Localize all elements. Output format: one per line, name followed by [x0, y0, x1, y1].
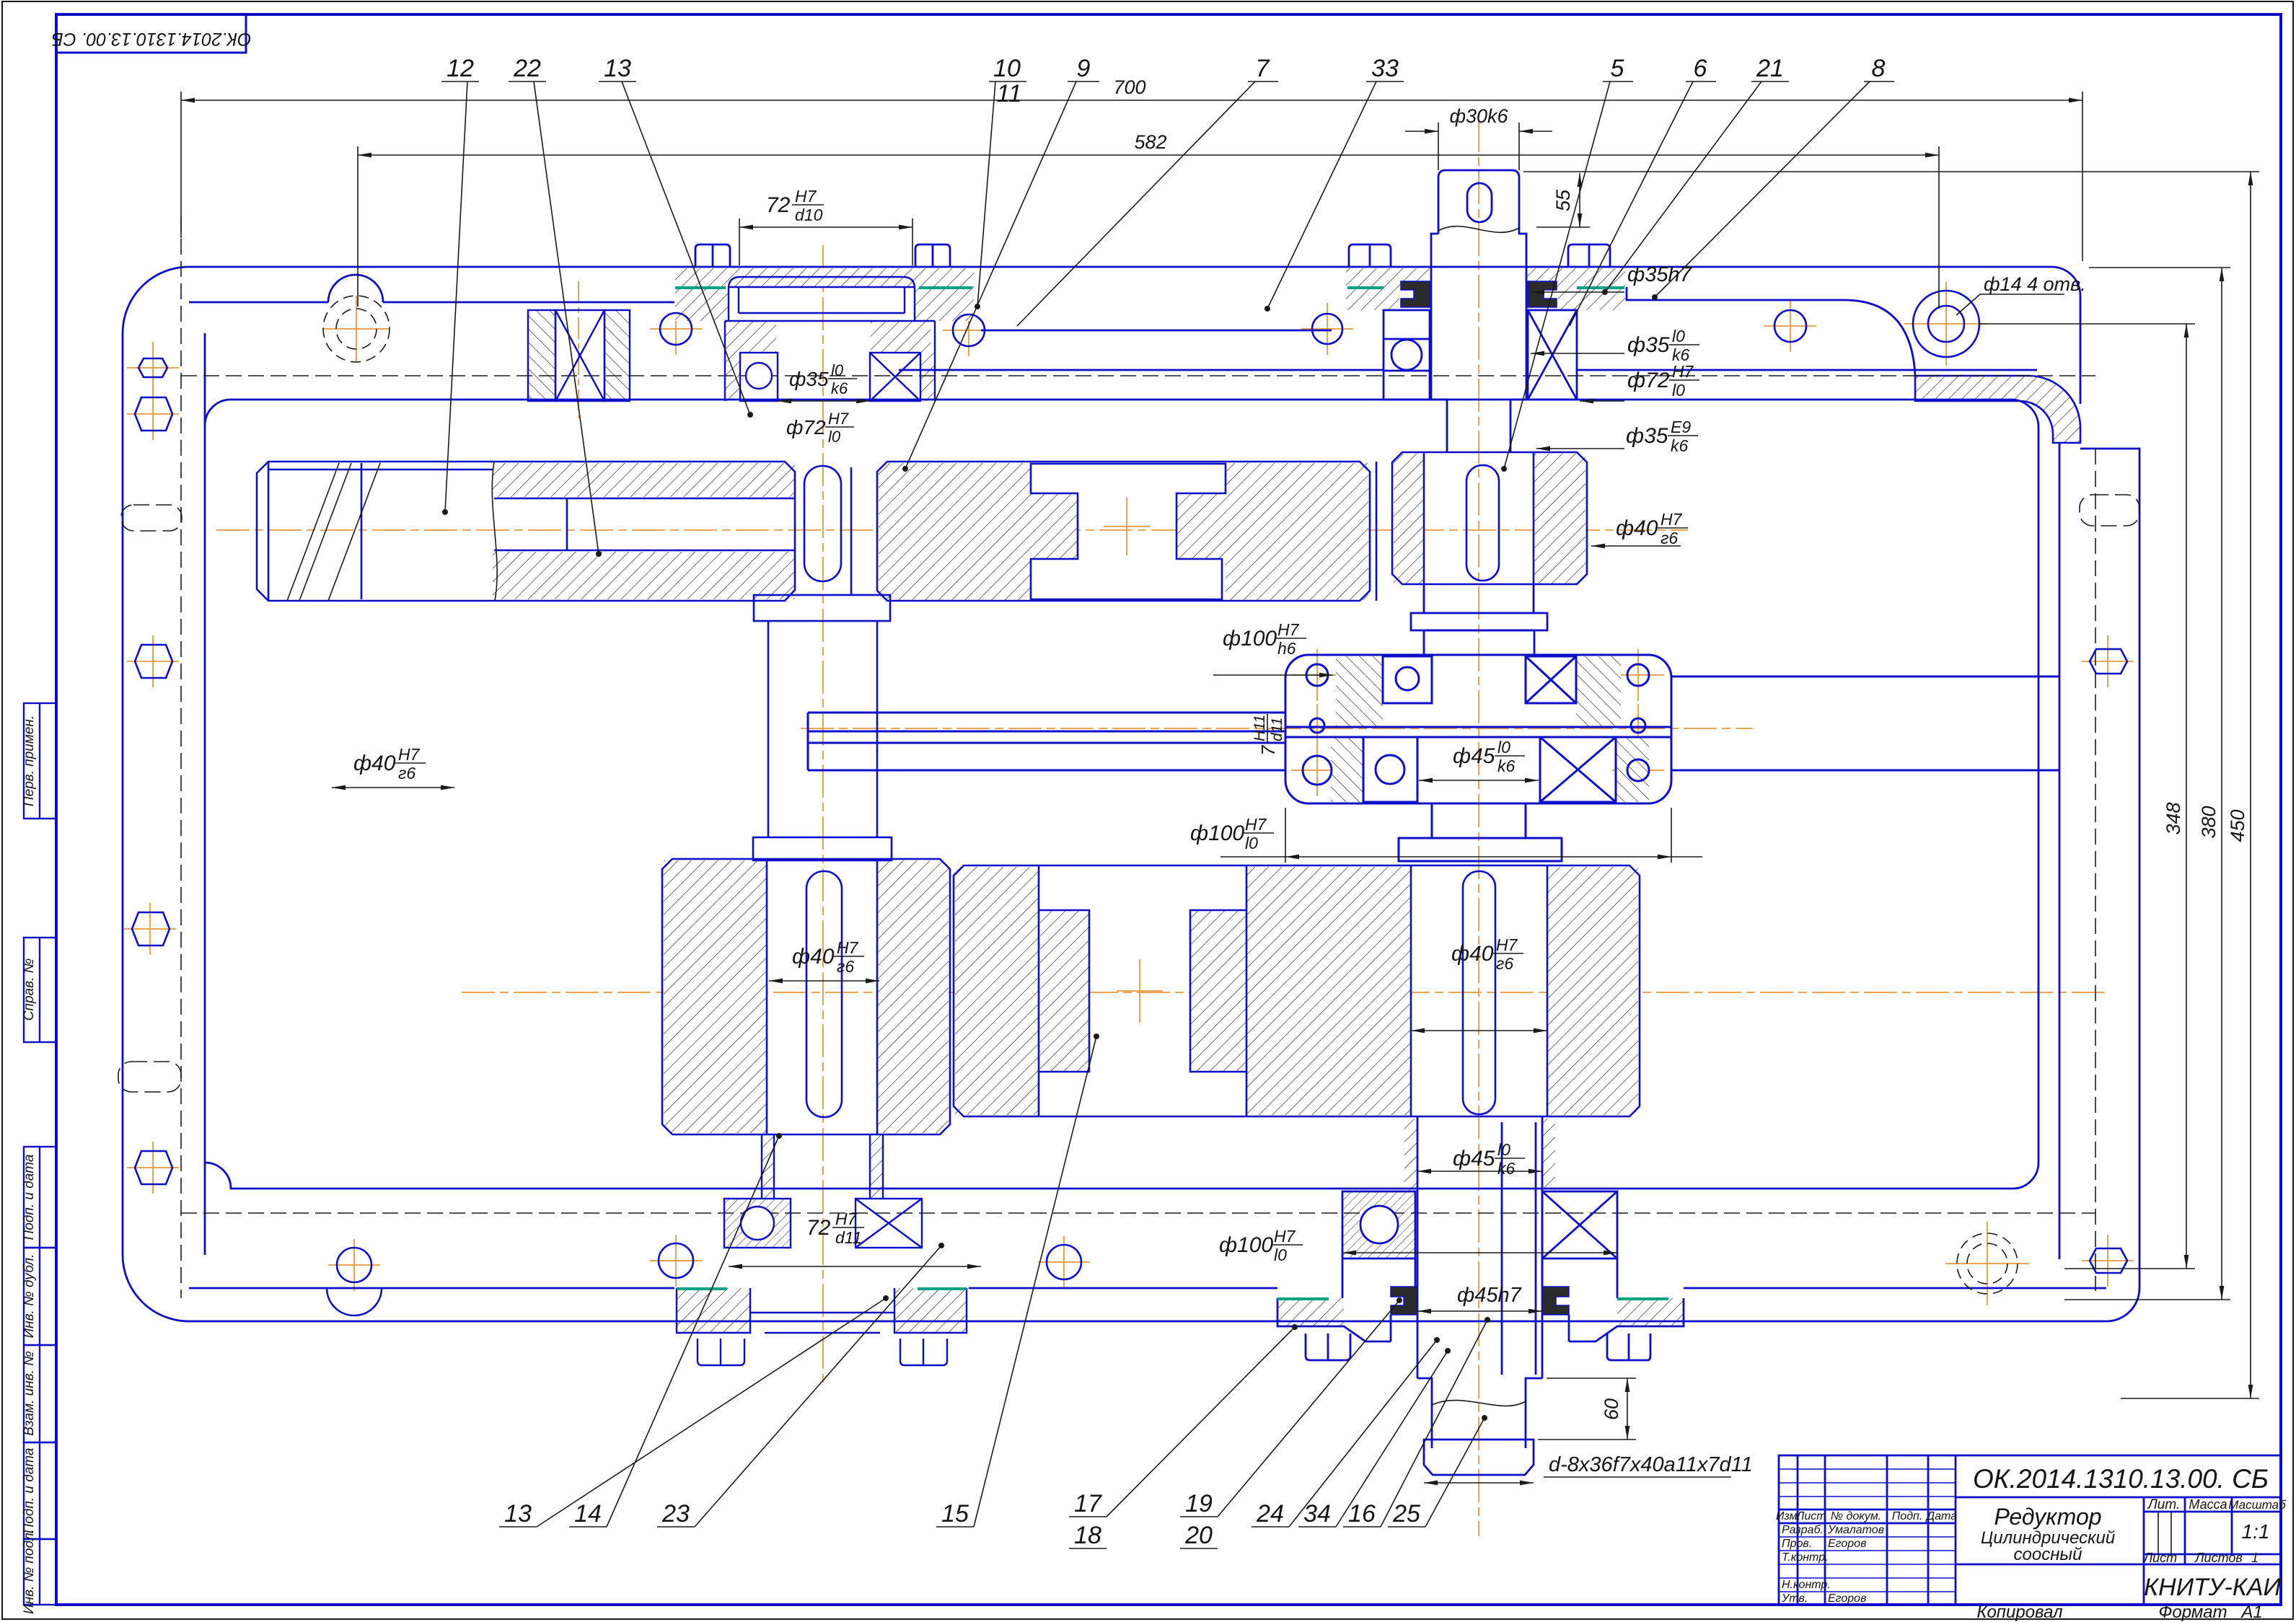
svg-text:E9: E9 [1671, 418, 1691, 436]
svg-text:ОК.2014.1310.13.00. СБ: ОК.2014.1310.13.00. СБ [1973, 1464, 2269, 1494]
svg-text:24: 24 [1256, 1500, 1284, 1528]
svg-text:Лист: Лист [1795, 1510, 1826, 1522]
svg-text:ф30k6: ф30k6 [1449, 105, 1508, 127]
svg-text:d11: d11 [835, 1228, 862, 1247]
input shaft (pos.16 upper end) with keyway slot [695, 170, 2037, 655]
svg-text:72: 72 [766, 193, 791, 217]
svg-text:d10: d10 [795, 206, 823, 224]
svg-text:22: 22 [513, 55, 541, 82]
intermediate shaft bottom bearing and cover hatching [762, 1134, 774, 1199]
svg-text:ф100: ф100 [1223, 627, 1277, 651]
svg-text:ф35: ф35 [1626, 424, 1668, 448]
svg-text:20: 20 [1184, 1522, 1213, 1549]
svg-text:H7: H7 [1245, 815, 1267, 834]
svg-text:H11: H11 [1252, 715, 1268, 741]
svg-text:11: 11 [996, 80, 1021, 107]
svg-text:ОК.2014.1310.13.00. СБ: ОК.2014.1310.13.00. СБ [51, 29, 251, 49]
svg-text:l0: l0 [1672, 327, 1685, 345]
svg-text:13: 13 [504, 1500, 532, 1528]
svg-text:Взам. инв. №: Взам. инв. № [22, 1351, 37, 1436]
svg-text:H7: H7 [398, 745, 421, 764]
CENTERLINES: orange axis lines [124, 119, 2134, 1536]
svg-text:ф40: ф40 [1616, 516, 1658, 540]
lower stage gear wheels hatching (pos.14, 15) [664, 860, 767, 1133]
svg-text:h6: h6 [1277, 639, 1296, 658]
svg-text:H7: H7 [1661, 510, 1683, 529]
svg-text:H7: H7 [1672, 362, 1694, 381]
svg-text:Пров.: Пров. [1782, 1538, 1812, 1550]
svg-text:8: 8 [1872, 55, 1886, 82]
svg-text:Егоров: Егоров [1828, 1538, 1866, 1550]
large gear wheel hatching (pos.9) upper shaft [879, 463, 1031, 600]
svg-text:13: 13 [604, 55, 631, 82]
input shaft cover plate hatching (pos.21) [1346, 268, 1431, 287]
output shaft neck and collar [1431, 803, 1433, 838]
svg-text:l0: l0 [1497, 1140, 1510, 1159]
svg-text:17: 17 [1074, 1490, 1102, 1517]
svg-text:348: 348 [2163, 802, 2184, 834]
svg-text:k6: k6 [1497, 757, 1516, 775]
upper shaft end bearing support walls [528, 310, 555, 401]
svg-text:d11: d11 [1269, 718, 1285, 741]
svg-text:Справ. №: Справ. № [22, 958, 37, 1021]
svg-text:Егоров: Егоров [1828, 1592, 1866, 1605]
svg-text:ф45: ф45 [1453, 1147, 1495, 1171]
svg-text:ф72: ф72 [786, 416, 826, 438]
svg-text:Подп. и дата: Подп. и дата [22, 1155, 37, 1240]
svg-text:ф72: ф72 [1627, 369, 1670, 392]
cover fastening bolts M10 [695, 244, 730, 267]
svg-text:Листов: Листов [2194, 1551, 2243, 1565]
key (pos.7 H11/d11) side view lines [808, 712, 1285, 714]
top-left inverted designation stamp [56, 14, 246, 53]
upper bearings: ball bearing and roller bearing X-sections [528, 277, 935, 401]
GREENS: gasket lines [675, 288, 1668, 1299]
svg-text:19: 19 [1185, 1490, 1213, 1517]
middle bearing cartridge (стакан) hatching [1336, 656, 1383, 727]
svg-text:Умалатов: Умалатов [1827, 1524, 1884, 1536]
svg-text:H7: H7 [835, 1209, 858, 1228]
flange bolt holes and wall bolts [132, 291, 2127, 1315]
fit tolerance fraction labels [789, 361, 857, 397]
intermediate shaft bottom bearing assembly [677, 1134, 967, 1365]
HATCHES [493, 268, 2080, 1333]
svg-text:582: 582 [1134, 131, 1166, 153]
svg-text:ф100: ф100 [1190, 821, 1244, 845]
lower left gear wheel (pos.14) [662, 859, 950, 1134]
svg-text:k6: k6 [831, 379, 848, 397]
shaft lines to right housing wall [1671, 676, 2059, 678]
svg-text:ф100: ф100 [1219, 1233, 1273, 1257]
svg-text:5: 5 [1611, 55, 1624, 82]
svg-text:l0: l0 [1245, 834, 1258, 852]
svg-text:ф35: ф35 [1627, 333, 1670, 357]
svg-text:l0: l0 [1274, 1246, 1287, 1264]
svg-text:КНИТУ-КАИ: КНИТУ-КАИ [2144, 1574, 2281, 1601]
SEALS: lip seal cross-sections (pos.19/20) [1391, 281, 1569, 1315]
svg-text:6: 6 [1694, 55, 1707, 82]
svg-text:Т.контр.: Т.контр. [1782, 1551, 1829, 1564]
svg-text:23: 23 [661, 1500, 690, 1528]
svg-text:l0: l0 [831, 361, 844, 379]
svg-text:H7: H7 [795, 187, 817, 206]
svg-text:21: 21 [1756, 55, 1784, 82]
svg-text:Дата: Дата [1925, 1510, 1957, 1522]
svg-text:d-8x36f7x40a11x7d11: d-8x36f7x40a11x7d11 [1549, 1453, 1753, 1476]
svg-text:7: 7 [1256, 55, 1270, 82]
housing inner chamber outline [205, 400, 2038, 1189]
svg-text:ф40: ф40 [792, 945, 835, 969]
svg-text:16: 16 [1348, 1500, 1376, 1528]
svg-text:14: 14 [574, 1500, 602, 1528]
bearing cap cover plate (pos.10/11) hatching, left bearing unit [675, 268, 974, 287]
svg-text:700: 700 [1113, 76, 1145, 98]
input shaft pinion (pos.5) [1392, 452, 1587, 584]
svg-text:H7: H7 [1277, 620, 1300, 639]
svg-text:H7: H7 [828, 410, 849, 428]
svg-text:Подп.: Подп. [1892, 1510, 1923, 1522]
svg-text:ф45h7: ф45h7 [1457, 1284, 1523, 1307]
svg-text:33: 33 [1371, 55, 1399, 82]
output gear hub walls hatching [1404, 1119, 1417, 1191]
svg-text:k6: k6 [1671, 436, 1689, 455]
svg-text:H7: H7 [1496, 935, 1518, 954]
hidden contour dashed lines [118, 216, 2139, 1298]
svg-text:450: 450 [2227, 809, 2248, 842]
svg-text:ф35: ф35 [789, 368, 829, 390]
svg-text:1:1: 1:1 [2242, 1520, 2270, 1543]
part number callouts bottom row: 13 14 23 15 17 18 19 20 24 34 16 25 [504, 1490, 1420, 1549]
svg-text:l0: l0 [828, 428, 841, 446]
svg-text:Масштаб: Масштаб [2228, 1498, 2287, 1512]
svg-text:380: 380 [2198, 806, 2220, 838]
svg-text:Разраб.: Разраб. [1782, 1524, 1824, 1536]
svg-text:ф40: ф40 [353, 752, 396, 775]
part number callouts top row: 12 22 13 10 11 9 7 33 5 6 21 8 [447, 55, 1885, 107]
TITLEBLOCK: GOST form 1 [1776, 1455, 2287, 1605]
svg-text:60: 60 [1601, 1398, 1622, 1420]
lower right gear wheel (pos.15) with spacer [954, 865, 1640, 1116]
svg-text:55: 55 [1552, 189, 1574, 211]
housing left wall inner edge [204, 333, 206, 426]
svg-text:1: 1 [2251, 1551, 2258, 1565]
svg-text:k6: k6 [1497, 1159, 1516, 1178]
svg-text:г6: г6 [837, 957, 854, 976]
housing body (pos.13) outer walls [123, 267, 2139, 1321]
svg-text:Инв. № подл.: Инв. № подл. [22, 1529, 37, 1614]
svg-text:10: 10 [993, 55, 1021, 82]
lower stage: gears pos.14 and pos.15 [662, 859, 1640, 1134]
svg-text:Подп. и дата: Подп. и дата [22, 1448, 37, 1534]
svg-text:l0: l0 [1672, 381, 1685, 400]
input pinion gear hatching (pos.5) [1394, 454, 1424, 583]
svg-text:г6: г6 [1661, 529, 1678, 547]
svg-text:18: 18 [1074, 1522, 1101, 1549]
svg-text:ф35h7: ф35h7 [1627, 263, 1693, 286]
svg-text:15: 15 [941, 1500, 969, 1528]
input shaft collar and spacer [1423, 584, 1425, 613]
svg-text:№ докум.: № докум. [1831, 1510, 1881, 1522]
output shaft (pos.16) lower end with spline [1277, 1116, 1684, 1475]
svg-text:Утв.: Утв. [1781, 1592, 1808, 1605]
svg-text:ф45: ф45 [1453, 744, 1495, 768]
svg-text:Инв. № дубл.: Инв. № дубл. [22, 1254, 37, 1339]
svg-text:H7: H7 [1274, 1227, 1296, 1246]
svg-text:25: 25 [1392, 1500, 1420, 1528]
left margin GOST graph boxes [24, 703, 56, 1605]
svg-text:Перв. примен.: Перв. примен. [22, 715, 37, 806]
housing top flange step lines [189, 301, 674, 304]
middle bearing cartridge unit with bolts and bearings [808, 655, 2059, 861]
svg-text:l0: l0 [1497, 738, 1510, 757]
intermediate vertical shaft (pos.23) with collars [753, 595, 892, 860]
svg-text:12: 12 [447, 55, 474, 82]
svg-text:72: 72 [806, 1216, 831, 1240]
svg-text:Редуктор: Редуктор [1994, 1504, 2101, 1530]
svg-text:Н.контр.: Н.контр. [1782, 1579, 1831, 1591]
thin break lines and wavy section breaks [287, 226, 1526, 1406]
housing wall cut corner band, top right [1915, 376, 2080, 443]
svg-text:Лист: Лист [2143, 1551, 2177, 1565]
svg-text:г6: г6 [398, 764, 415, 783]
svg-text:Лит.: Лит. [2147, 1497, 2181, 1512]
output shaft bottom bearing and end covers hatching [1342, 1191, 1415, 1259]
svg-text:9: 9 [1077, 55, 1091, 82]
svg-text:Масса: Масса [2189, 1497, 2227, 1512]
large gear wheel hatching (pos.9) upper shaft [877, 462, 1370, 601]
svg-text:H7: H7 [837, 938, 859, 957]
svg-text:г6: г6 [1496, 954, 1513, 973]
svg-text:соосный: соосный [2014, 1545, 2082, 1564]
dimension lines: 700, 582, ф30k6, 55, 72H7/d10, 348, 380, 450, 60, spline [181, 92, 2259, 1483]
svg-text:ф14 4 отв.: ф14 4 отв. [1984, 273, 2086, 295]
svg-text:7: 7 [1257, 744, 1279, 756]
upper shaft with gear (pos.12) and keyway [257, 452, 1587, 601]
BLUELINES [118, 170, 2139, 1475]
housing bottom flange lines [189, 1287, 674, 1290]
svg-text:ф40: ф40 [1451, 942, 1494, 966]
gear wheel hub hatching (pos.12) upper left shaft [493, 463, 795, 497]
